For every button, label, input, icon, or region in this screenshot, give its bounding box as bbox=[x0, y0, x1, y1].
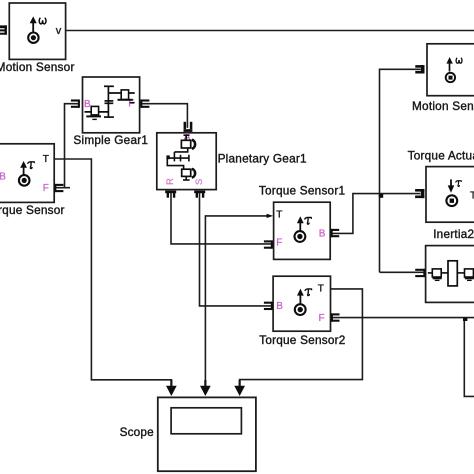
port connector Planetary Gear1 S (bottom) bbox=[194, 191, 205, 194]
icon Torque Sensor2 arrow tau circle bbox=[295, 295, 306, 316]
wire Torque Sensor2 F to right edge with branch down bbox=[332, 317, 474, 319]
svg-text:F: F bbox=[276, 238, 282, 249]
svg-text:F: F bbox=[319, 313, 325, 324]
svg-text:Scope: Scope bbox=[120, 425, 154, 439]
arrow stems into Scope bbox=[171, 380, 239, 387]
svg-text:Motion Sensor: Motion Sensor bbox=[0, 60, 75, 74]
wire Torque Sensor2 T to Scope arrow 3 bbox=[240, 289, 363, 388]
wire Planetary Gear1 R to Torque Sensor1 F bbox=[171, 193, 271, 244]
port connector Planetary Gear1 A (top) bbox=[185, 122, 191, 129]
arrow into Scope input 3 bbox=[234, 386, 245, 396]
wire junction vertical to Motion Sensor1 and Inertia21 bbox=[380, 69, 421, 272]
wire Torque Sensor1 T branch to Scope arrow 2 bbox=[205, 216, 267, 388]
junction node F net of Torque Sensor2 bbox=[463, 318, 467, 321]
arrow into Scope input 1 bbox=[166, 386, 177, 396]
svg-text:T: T bbox=[470, 191, 474, 202]
arrow into Scope input 2 bbox=[200, 386, 211, 396]
svg-text:B: B bbox=[84, 99, 91, 110]
svg-text:Torque Sensor: Torque Sensor bbox=[0, 203, 65, 217]
wire junction to Inertia21 port bbox=[380, 271, 425, 273]
wire v output of Motion Sensor to right edge bbox=[66, 30, 474, 32]
svg-text:Motion Sensor1: Motion Sensor1 bbox=[412, 99, 474, 113]
icon Motion Sensor arrow and omega bbox=[28, 22, 38, 43]
block Torque Actuator (right, clipped) bbox=[426, 167, 474, 223]
port connector Inertia21 bbox=[415, 269, 425, 277]
svg-text:Planetary Gear1: Planetary Gear1 bbox=[218, 151, 307, 165]
port connector Torque Sensor1 B bbox=[331, 229, 339, 237]
icon Torque Sensor1 arrow tau circle bbox=[295, 222, 306, 242]
port connector Torque Actuator (filled) bbox=[415, 189, 424, 198]
wire branch down exiting right edge bbox=[464, 318, 474, 397]
svg-text:T: T bbox=[43, 154, 49, 165]
wire Torque Sensor1 B to junction node bbox=[332, 194, 420, 234]
icon Planetary Gear1 bbox=[167, 135, 195, 180]
svg-text:T: T bbox=[276, 210, 282, 221]
icon Torque Actuator arrow down tau circle bbox=[446, 179, 457, 206]
svg-text:v: v bbox=[56, 25, 62, 37]
svg-text:Inertia21: Inertia21 bbox=[433, 227, 474, 241]
port connector Torque Sensor2 F bbox=[331, 313, 339, 321]
svg-text:B: B bbox=[276, 301, 283, 312]
block Inertia21 (right, clipped) bbox=[426, 246, 474, 303]
port connector Motion Sensor left (filled, clipped) bbox=[0, 25, 7, 34]
icon Inertia21 shaft boxes bbox=[428, 261, 474, 286]
svg-text:B: B bbox=[319, 229, 326, 240]
svg-text:Torque Sensor2: Torque Sensor2 bbox=[259, 333, 345, 347]
svg-text:Torque Actuator: Torque Actuator bbox=[408, 149, 474, 163]
block Planetary Gear1 bbox=[157, 133, 216, 190]
svg-text:S: S bbox=[194, 179, 205, 185]
wire Planetary Gear1 S to Torque Sensor2 B bbox=[200, 193, 272, 306]
port connector Torque Sensor F bbox=[55, 184, 63, 192]
block Motion Sensor bbox=[9, 3, 65, 59]
block Motion Sensor1 (right, clipped) bbox=[427, 44, 474, 96]
port connector Motion Sensor1 (filled) bbox=[415, 65, 424, 73]
svg-text:F: F bbox=[43, 183, 49, 194]
svg-text:Torque Sensor1: Torque Sensor1 bbox=[259, 183, 345, 197]
port connector Torque Sensor2 B bbox=[264, 302, 272, 310]
icon Torque Sensor arrow tau circle bbox=[19, 167, 30, 186]
svg-text:Simple Gear1: Simple Gear1 bbox=[73, 133, 148, 147]
wire Simple Gear1 B to Torque Sensor F bbox=[56, 104, 79, 188]
wire Torque Sensor T to Scope arrow 1 bbox=[54, 159, 171, 388]
block Torque Sensor2 bbox=[273, 276, 330, 331]
block Simple Gear1 bbox=[83, 77, 140, 133]
icon Scope screen bbox=[171, 408, 241, 434]
wire Simple Gear1 F to Planetary Gear1 A bbox=[142, 104, 188, 128]
svg-text:T: T bbox=[318, 284, 324, 295]
block Torque Sensor1 bbox=[274, 202, 331, 259]
block Torque Sensor (left, clipped) bbox=[0, 144, 54, 203]
icon Motion Sensor1 arrow omega circle bbox=[446, 63, 455, 83]
port connector Torque Sensor1 F bbox=[264, 240, 272, 248]
block Scope bbox=[158, 397, 256, 471]
svg-text:R: R bbox=[165, 178, 176, 185]
arrow into Torque Sensor1 T port bbox=[267, 214, 274, 218]
junction node B net bbox=[379, 194, 383, 198]
icon Simple Gear1 gears bbox=[85, 86, 135, 118]
port connector Simple Gear1 B bbox=[71, 100, 79, 108]
port connector Planetary Gear1 R (bottom) bbox=[165, 191, 176, 194]
svg-text:B: B bbox=[0, 171, 6, 182]
port connector Simple Gear1 F bbox=[141, 100, 149, 108]
